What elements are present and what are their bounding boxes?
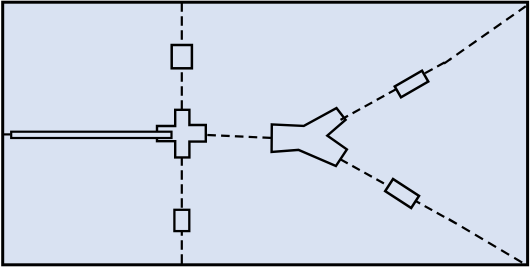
wire: upper diagonal dashed net, joint to top-right corner — [444, 6, 526, 63]
component C2: bottom series pad on vertical net — [174, 210, 189, 231]
cross junction X1 with step discontinuity (left arm) — [157, 110, 206, 158]
wire: lower diagonal dashed net, splitter arm to joint (passes under R2) — [340, 159, 456, 223]
resistor R2: series element on lower diagonal — [385, 179, 419, 208]
Y-splitter / power divider U1 — [272, 108, 347, 166]
component C1: top series pad on vertical net — [172, 45, 192, 68]
microstrip feed line TL1 — [11, 132, 171, 138]
wire: lower diagonal dashed net, joint to bottom-right corner — [449, 219, 524, 263]
resistor R1: series element on upper diagonal — [395, 71, 429, 98]
port stub at left border — [3, 133, 11, 135]
wire: horizontal dashed net, cross to splitter — [207, 135, 270, 138]
wire: vertical dashed net through cross junction — [181, 2, 183, 263]
wire: upper diagonal dashed net, splitter arm to joint (passes under R1) — [341, 59, 451, 120]
